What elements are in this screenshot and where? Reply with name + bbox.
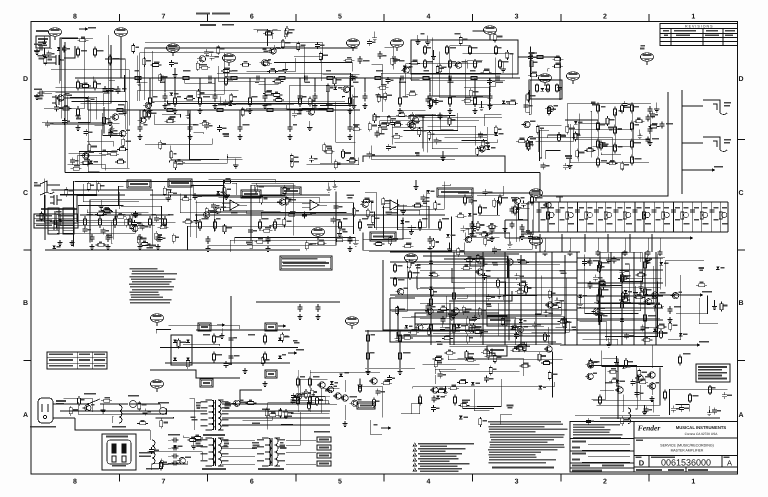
svg-text:Fender: Fender <box>638 424 661 433</box>
svg-text:2: 2 <box>603 14 607 21</box>
svg-text:A: A <box>727 459 732 468</box>
svg-text:Corona CA 92720 USA: Corona CA 92720 USA <box>685 432 719 436</box>
svg-text:5: 5 <box>338 14 342 21</box>
svg-text:3: 3 <box>515 14 519 21</box>
svg-text:D: D <box>23 76 28 83</box>
svg-text:0061536000: 0061536000 <box>661 458 711 468</box>
svg-text:B: B <box>23 300 28 307</box>
svg-text:7: 7 <box>162 14 166 21</box>
svg-text:1: 1 <box>691 14 695 21</box>
svg-text:6: 6 <box>250 479 254 486</box>
svg-text:6: 6 <box>250 14 254 21</box>
svg-text:MUSICAL INSTRUMENTS: MUSICAL INSTRUMENTS <box>676 425 727 430</box>
svg-text:4: 4 <box>426 14 430 21</box>
svg-text:8: 8 <box>73 479 77 486</box>
svg-text:4: 4 <box>426 479 430 486</box>
svg-text:1: 1 <box>691 479 695 486</box>
svg-text:3: 3 <box>515 479 519 486</box>
svg-text:MASTER AMPLIFIER: MASTER AMPLIFIER <box>671 449 704 453</box>
svg-text:C: C <box>23 190 28 197</box>
svg-text:7: 7 <box>162 479 166 486</box>
svg-text:R E V I S I O N S: R E V I S I O N S <box>685 25 713 29</box>
svg-text:SERVICE (MUSIC/RECORDING): SERVICE (MUSIC/RECORDING) <box>660 444 714 448</box>
svg-text:5: 5 <box>338 479 342 486</box>
svg-text:A: A <box>23 412 28 419</box>
svg-text:A: A <box>738 412 743 419</box>
svg-text:2: 2 <box>603 479 607 486</box>
svg-text:D: D <box>639 459 645 468</box>
svg-text:8: 8 <box>73 14 77 21</box>
svg-text:C: C <box>738 190 743 197</box>
svg-text:B: B <box>738 300 743 307</box>
svg-text:D: D <box>738 76 743 83</box>
